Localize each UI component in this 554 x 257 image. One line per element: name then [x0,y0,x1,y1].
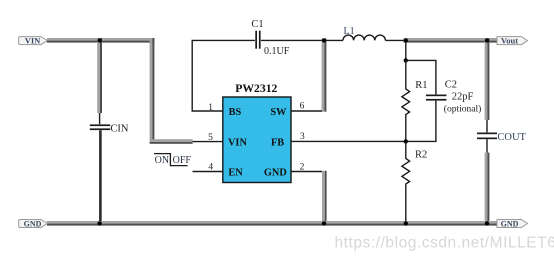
wire R1-C2 branch stub [405,42,407,59]
resistor R1 [402,60,410,141]
wire GND bottom rail [47,221,497,226]
switch ON-OFF symbol [154,154,191,166]
node junction VIN-CIN [97,38,101,42]
svg-text:C1: C1 [251,19,263,30]
capacitor C2 [407,95,447,142]
svg-text:(optional): (optional) [444,104,481,115]
inductor L1 [326,35,404,40]
wire pin 5 VIN stub [193,141,223,143]
node junction GND-CIN [97,221,101,225]
wire COUT top vertical [485,38,490,120]
wire CIN top vertical [97,38,102,113]
wire VIN top rail [47,38,155,43]
wire pin 4 EN [193,171,223,173]
node junction GND-COUT [485,221,489,225]
svg-text:SW: SW [270,107,287,118]
capacitor C1 [255,31,260,49]
svg-text:L1: L1 [344,26,355,37]
net tag Vout [497,36,528,46]
node junction GND-pin2 [322,221,326,225]
wire pin 3 FB [291,140,405,142]
svg-text:GND: GND [501,219,519,228]
wire branch to C2 top [406,60,436,94]
svg-text:5: 5 [208,133,213,143]
wire VIN vertical drop to pin 5 [150,38,155,142]
net tag VIN [19,35,48,45]
svg-text:https://blog.csdn.net/MILLET6: https://blog.csdn.net/MILLET6 [335,235,554,252]
svg-text:EN: EN [228,167,243,178]
wire thin loop pin1 BS to C1 [192,40,255,111]
wire pin 2 GND [291,171,322,173]
svg-text:2: 2 [300,163,305,173]
wire C1 to SW node [261,39,322,41]
node junction SW-C1-L1 [322,38,326,42]
svg-text:COUT: COUT [497,132,526,143]
svg-text:ON: ON [155,155,169,166]
svg-text:R2: R2 [415,149,427,160]
svg-text:0.1UF: 0.1UF [264,46,290,57]
net tag GND right [497,219,528,228]
resistor R2 [402,141,410,221]
net tag GND left [19,219,48,228]
wire CIN bottom lead [99,130,102,221]
node junction Vout-COUT [485,38,489,42]
wire COUT bottom vertical [485,153,490,226]
svg-text:4: 4 [208,163,213,173]
wire Vout rail [404,38,498,43]
op-amp U1 PW2312 body [223,97,291,183]
capacitor COUT [477,120,497,153]
svg-text:R1: R1 [415,80,427,91]
node junction FB divider [404,139,408,143]
node junction GND-R2 [404,221,408,225]
svg-text:FB: FB [271,138,284,149]
wire SW node vertical [322,38,327,111]
svg-text:BS: BS [229,107,242,118]
svg-text:CIN: CIN [110,123,128,134]
capacitor CIN [90,113,110,130]
node junction L1-output [404,38,408,42]
svg-text:Vout: Vout [501,36,518,46]
svg-text:OFF: OFF [173,155,192,166]
svg-text:3: 3 [300,132,305,142]
wire horizontal into pin 5 [150,139,193,144]
svg-text:VIN: VIN [228,138,247,149]
svg-text:22pF: 22pF [452,91,474,102]
svg-text:VIN: VIN [25,35,41,45]
svg-text:6: 6 [300,102,305,112]
wire pin2 vertical drop [322,171,327,226]
svg-text:GND: GND [24,219,42,228]
svg-text:PW2312: PW2312 [235,82,277,95]
node junction R1-C2 top [404,58,408,62]
wire pin 6 SW [291,110,322,112]
svg-text:1: 1 [208,103,213,113]
svg-text:GND: GND [264,167,287,178]
svg-text:C2: C2 [445,80,457,91]
